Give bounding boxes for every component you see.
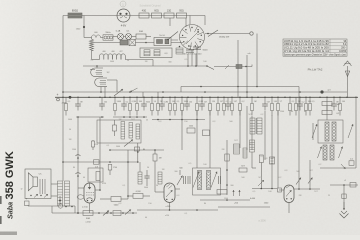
svg-text:2M: 2M <box>299 195 302 197</box>
resistor R23 vertical <box>153 154 157 161</box>
svg-text:0,1: 0,1 <box>123 185 126 187</box>
svg-text:0,3: 0,3 <box>261 156 264 158</box>
wire x265 x278 verticals <box>264 111 266 160</box>
resistor R21 <box>111 197 121 202</box>
resistor Rb13 <box>223 97 225 103</box>
IF transformer left of tube3 <box>250 118 255 134</box>
small component blob <box>135 147 140 151</box>
BF2 trimmer arrow a <box>193 172 199 188</box>
wire collector line B <box>113 116 147 118</box>
jack symbol 1 <box>76 155 81 156</box>
resistor Rb15 <box>239 97 241 103</box>
svg-text:1M: 1M <box>162 169 165 171</box>
BF2 side capacitor <box>189 176 191 184</box>
svg-text:6,3: 6,3 <box>177 195 180 197</box>
field coil inside box <box>39 179 41 194</box>
wire verticals right mid <box>298 87 300 190</box>
svg-text:0,2: 0,2 <box>319 164 322 166</box>
svg-text:1500: 1500 <box>72 149 76 151</box>
trimmer inside box 2 <box>154 50 160 56</box>
BF4 coil a <box>323 145 327 160</box>
svg-text:2M: 2M <box>119 119 122 121</box>
BF4 trimmer right <box>339 147 343 159</box>
svg-text:5000: 5000 <box>110 61 114 63</box>
resistor Rb2 <box>114 97 116 103</box>
svg-text:50: 50 <box>156 185 158 187</box>
svg-text:500: 500 <box>229 121 232 123</box>
switch S1 mains <box>168 32 178 40</box>
wire box to drum <box>171 42 183 44</box>
BF3 coil b <box>332 122 336 141</box>
resistor R3 <box>152 13 162 18</box>
coil L3 <box>121 122 125 140</box>
output transformer TR1 secondary <box>65 181 70 206</box>
paper noise overlay <box>0 0 1 1</box>
junction cluster <box>58 204 62 208</box>
wire drop to switch drum 1 <box>169 18 171 26</box>
wire rail y92 <box>63 91 347 93</box>
capacitor Cb10 <box>299 97 301 104</box>
BF2 coil b <box>207 171 211 190</box>
wire long verticals below bus <box>196 110 198 168</box>
wire y200 <box>200 199 250 201</box>
trimmer arrow tube3 a <box>296 178 301 185</box>
capacitor Cb11 <box>333 97 335 104</box>
resistor R50 <box>83 211 93 216</box>
heater lamp LA2 <box>118 34 124 40</box>
resistor Rb17 <box>271 97 273 103</box>
resistor R2 <box>139 13 149 18</box>
tube V1 UCH11 mixer <box>284 185 294 203</box>
resistor R31 <box>239 168 247 172</box>
capacitor Cb9 <box>264 97 266 104</box>
svg-text:80: 80 <box>73 167 75 169</box>
wire drum to output terminal <box>205 33 250 35</box>
resistor Rb12 <box>217 97 219 103</box>
box oscillator coil set <box>97 120 141 143</box>
electrolytic capacitor C1 <box>157 40 163 44</box>
svg-text:0,1: 0,1 <box>91 60 94 62</box>
svg-text:300: 300 <box>168 62 171 64</box>
coil L9 <box>243 148 247 158</box>
resistor Rb14 <box>231 97 233 103</box>
wave trap BF3 box <box>318 120 343 143</box>
BF2 trimmer arrow b <box>211 172 217 188</box>
svg-text:5000: 5000 <box>144 187 148 189</box>
bottom rail dots <box>77 212 79 214</box>
wire bottom left link <box>28 205 58 207</box>
wire y150 line <box>110 149 164 151</box>
BF2 coil a <box>198 171 202 190</box>
svg-text:100: 100 <box>203 61 206 63</box>
component box dark <box>120 40 128 45</box>
coil L7 <box>158 172 162 184</box>
capacitor C speaker <box>25 201 30 206</box>
magic eye tube half 2 <box>95 78 107 87</box>
resistor Rg <box>94 160 100 164</box>
svg-text:50: 50 <box>69 129 71 131</box>
resistor Rb10 <box>196 97 198 103</box>
switch S2 <box>208 30 218 37</box>
wire drum down to rail <box>191 50 193 66</box>
component box bottom <box>113 211 121 216</box>
resistor Rb19 <box>289 97 291 103</box>
scan mark left edge 2 <box>0 216 2 224</box>
coil L2 <box>176 48 183 54</box>
component box mid <box>217 190 227 195</box>
svg-text:300: 300 <box>174 171 177 173</box>
resistor R22 <box>133 194 143 199</box>
wire heater chain <box>113 36 118 38</box>
wire top rail <box>63 15 205 17</box>
resistor Rb22 <box>309 97 311 103</box>
wire collector line mid <box>152 119 205 121</box>
wire bandfilter verticals <box>226 140 228 195</box>
svg-text:0,3: 0,3 <box>119 203 122 205</box>
svg-text:0,5: 0,5 <box>185 59 188 61</box>
wire right drop <box>326 97 328 120</box>
heater lamp LA3 <box>126 34 132 40</box>
capacitor C4 <box>189 48 191 50</box>
component at junction y162 <box>109 161 111 163</box>
resistor R30 vertical <box>225 154 229 161</box>
diode detector arrow <box>124 140 133 147</box>
wire row y42.5 <box>94 42 121 44</box>
resistor Ra1 <box>103 35 113 40</box>
svg-text:u150: u150 <box>165 215 169 217</box>
capacitor Cb2 <box>101 97 103 104</box>
resistor R5 <box>177 13 187 18</box>
resistor Rb4 <box>136 97 138 103</box>
svg-text:25: 25 <box>328 195 330 197</box>
electrolytic capacitor C2 <box>165 39 169 44</box>
wire rail y86 <box>181 86 299 88</box>
svg-text:150: 150 <box>271 157 274 159</box>
trimmer arrow tube3 b <box>308 178 313 184</box>
faint circled mark top <box>120 1 126 7</box>
resistor Rb20 <box>295 97 297 103</box>
BF4 coil b <box>330 145 334 160</box>
wire drop right of drum <box>204 16 206 26</box>
wire distribution line y66 <box>83 65 207 67</box>
svg-text:6,3: 6,3 <box>213 121 216 123</box>
wire ground drop <box>343 185 345 210</box>
resistor Rb23 <box>339 97 341 103</box>
resistor Rm1 <box>187 128 195 133</box>
BF3 trimmer left <box>312 124 317 138</box>
svg-text:1M: 1M <box>69 139 72 141</box>
svg-text:u150: u150 <box>94 144 98 146</box>
jack symbol 2 <box>76 173 81 174</box>
wire coil to loop row <box>91 38 93 40</box>
wire x128 <box>127 150 129 199</box>
resistor Rb18 <box>277 97 279 103</box>
resistor in grid box <box>96 172 100 181</box>
svg-text:5000: 5000 <box>116 146 120 148</box>
svg-text:500: 500 <box>241 177 244 179</box>
table of tube data <box>283 39 347 56</box>
wire ground line y162 <box>63 161 138 163</box>
diode marks bottom of box <box>30 195 31 196</box>
wire eye link <box>107 79 117 81</box>
jack symbol x272 <box>271 115 273 189</box>
BF3 coil a <box>325 122 329 141</box>
wire osc drop <box>137 143 139 162</box>
svg-text:80: 80 <box>204 203 206 205</box>
svg-text:2M: 2M <box>222 149 225 151</box>
resistor Rb6 <box>157 97 159 103</box>
svg-text:100: 100 <box>203 164 206 166</box>
wire tube2 bottom rail <box>137 209 218 211</box>
main chassis bus <box>55 96 358 98</box>
wire to antenna coil <box>92 59 100 61</box>
coil L5 <box>136 124 140 139</box>
terminal circle <box>250 32 253 35</box>
wire right column <box>355 97 357 168</box>
scan smudge bottom-left corner <box>0 232 17 236</box>
wire drop to switch drum 2 <box>185 18 187 27</box>
resistor Rb3 <box>129 97 131 103</box>
BF3 trimmer right <box>348 124 353 138</box>
resistor R33 vertical <box>259 155 263 163</box>
wire tube3 leads <box>279 189 284 191</box>
svg-text:0,1: 0,1 <box>107 145 110 147</box>
capacitor Cb8 <box>227 97 229 104</box>
coil L6 <box>138 172 142 184</box>
bus junction dots <box>62 97 64 99</box>
diode arrow 2 <box>125 210 131 215</box>
magic eye tube half 1 <box>91 68 103 77</box>
svg-text:1500: 1500 <box>280 111 284 113</box>
tuning gang cap CV1 <box>177 176 183 186</box>
svg-text:u150: u150 <box>102 183 106 185</box>
BF2 side capacitor right <box>218 176 220 184</box>
resistor Rb8 <box>174 97 176 103</box>
resistor Rb11 <box>209 97 211 103</box>
coil L4 <box>129 123 133 139</box>
ground symbol <box>343 202 345 210</box>
svg-text:150: 150 <box>184 121 187 123</box>
svg-text:40: 40 <box>83 177 85 179</box>
resistor Rb7 <box>169 97 171 103</box>
svg-text:50: 50 <box>127 60 129 62</box>
svg-text:6,3: 6,3 <box>285 170 288 172</box>
small arrows bottom mid <box>233 190 235 196</box>
wire tube1 leads <box>78 187 84 189</box>
wire vertical x84 <box>83 16 85 38</box>
coil L1 large loops <box>100 54 104 60</box>
svg-text:300: 300 <box>230 185 233 187</box>
resistor Rm2 <box>203 130 210 136</box>
component box on y66 <box>236 65 242 69</box>
wire magic eye leads <box>96 66 98 68</box>
capacitor Cb6 <box>186 97 188 104</box>
fuse diamond <box>129 39 135 45</box>
IF transformer BF2 box <box>193 168 221 195</box>
svg-text:1M: 1M <box>199 177 202 179</box>
svg-text:1M: 1M <box>145 61 148 63</box>
svg-text:0,2: 0,2 <box>279 177 282 179</box>
coil below IF <box>250 140 255 152</box>
svg-text:100: 100 <box>268 191 271 193</box>
svg-text:80: 80 <box>291 111 293 113</box>
svg-text:0,5: 0,5 <box>253 191 256 193</box>
capacitor Cb7 <box>201 97 203 104</box>
trimmer inside box 1 <box>144 50 150 56</box>
capacitor Cb1 <box>77 97 79 104</box>
resistor Rb1 <box>65 97 67 103</box>
pot oval <box>77 195 84 199</box>
capacitor Cb5 <box>161 97 163 104</box>
svg-text:40: 40 <box>304 111 306 113</box>
svg-text:40: 40 <box>145 217 147 219</box>
wire y66 extension <box>214 66 252 68</box>
svg-text:0,3: 0,3 <box>159 121 162 123</box>
svg-text:0,1: 0,1 <box>185 213 188 215</box>
speaker LS1 <box>33 177 38 187</box>
output transformer TR1 primary <box>58 181 63 206</box>
small comp x93 <box>92 141 95 147</box>
resistor Rb16 <box>251 97 253 103</box>
wire y207 <box>218 206 270 208</box>
wire feed x78 <box>77 117 79 213</box>
svg-text:0,5: 0,5 <box>189 163 192 165</box>
output transformer + speaker box <box>25 169 51 199</box>
wire tube2 leads <box>155 191 164 193</box>
electrolytic block box <box>154 38 171 46</box>
svg-text:25: 25 <box>249 144 251 146</box>
wire y185 right <box>330 184 358 186</box>
resistor Rb9 <box>181 97 183 103</box>
svg-text:5000: 5000 <box>68 119 72 121</box>
wire x250 down <box>251 152 253 168</box>
antenna symbol <box>347 66 349 92</box>
svg-text:0,2: 0,2 <box>261 114 264 116</box>
diode arrow near R33 <box>258 180 264 186</box>
resistor Rb5 <box>151 97 153 103</box>
wire antenna down <box>347 92 349 97</box>
wire y168 right <box>320 167 356 169</box>
coil La zigzag <box>90 39 94 51</box>
svg-text:500: 500 <box>296 171 299 173</box>
wire y188 left of tube3 <box>252 188 277 190</box>
title Saba 358 GWK (rotated) <box>4 151 16 219</box>
resistor R41 <box>322 111 332 115</box>
tube V3 UCL11 output <box>84 183 95 203</box>
wire collector line left <box>76 116 104 118</box>
resistor Rb21 <box>305 97 307 103</box>
switch arm on bus <box>114 89 123 96</box>
wire drops to distribution line <box>187 54 189 66</box>
scan mark left edge 1 <box>0 196 2 204</box>
resistor R1 800ohm <box>68 13 82 18</box>
wire speaker connections <box>51 183 58 185</box>
coil bumps row upper <box>92 35 97 38</box>
svg-text:50: 50 <box>147 167 149 169</box>
wire right verticals midtop <box>237 40 239 97</box>
resistor R4 <box>164 13 174 18</box>
wire lamp drop <box>171 39 178 41</box>
blob component right <box>342 194 346 198</box>
svg-text:150: 150 <box>148 203 151 205</box>
wire bottom rail y213 <box>52 212 137 214</box>
antenna terminal blob <box>320 90 323 93</box>
wire left main vertical <box>62 16 64 181</box>
BF4 trimmer left <box>318 147 322 159</box>
diode arrow 1 <box>103 211 109 216</box>
box wave trap B1 <box>140 48 172 58</box>
small component inside coil box <box>113 125 117 131</box>
capacitor Cb3 <box>123 97 125 104</box>
switch S3 <box>207 66 214 70</box>
component small left of tube3 <box>278 188 282 192</box>
coil L8 <box>234 144 240 154</box>
svg-text:25: 25 <box>146 120 148 122</box>
small parts row <box>144 175 149 177</box>
capacitor Cb4 <box>143 97 145 104</box>
resistor R40 <box>322 102 332 106</box>
tube V2 UBF11 <box>164 183 175 203</box>
capacitor C3 5000 <box>196 47 198 50</box>
svg-text:1500: 1500 <box>224 198 228 200</box>
grid network box <box>88 168 103 182</box>
dial lamp LA1 <box>117 9 130 22</box>
voltage selector drum (tube-socket circle) <box>180 25 205 50</box>
switch arm on y92 line <box>130 88 138 92</box>
resistor R6 heater <box>136 34 146 39</box>
